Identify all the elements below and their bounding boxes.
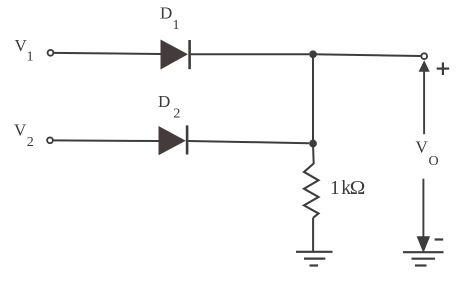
label 1 kOhm [330, 178, 365, 199]
svg-text:V: V [14, 121, 27, 140]
plus sign [437, 62, 450, 75]
svg-text:2: 2 [173, 106, 180, 121]
resistor R 1k zigzag [304, 164, 319, 218]
label Vo [416, 137, 439, 169]
svg-text:D: D [158, 92, 170, 111]
diode D2 [159, 125, 188, 155]
wire node B to resistor top [312, 144, 315, 165]
svg-text:1: 1 [330, 178, 340, 199]
wire D1 cathode to node A [191, 53, 309, 55]
svg-text:D: D [160, 3, 172, 22]
diode D1 [161, 40, 190, 70]
svg-text:Ω: Ω [350, 178, 366, 199]
wire node A to output terminal [313, 54, 421, 56]
svg-text:2: 2 [27, 135, 34, 150]
label V1 [15, 36, 34, 65]
wire D2 cathode to node B [188, 141, 309, 143]
svg-text:O: O [429, 154, 439, 169]
wire V2 to D2 anode [53, 139, 158, 142]
node V2 input terminal [47, 137, 53, 143]
wire node A to node B vertical [312, 54, 314, 143]
minus sign [435, 238, 444, 240]
node V1 input terminal [48, 50, 54, 56]
svg-text:1: 1 [27, 50, 34, 65]
svg-text:V: V [416, 137, 429, 156]
wire resistor bottom to ground [312, 218, 314, 252]
Vo arrow down (- end) [417, 179, 431, 253]
wire V1 to D1 anode [54, 53, 161, 54]
node B junction dot [309, 140, 317, 148]
node Vo output terminal [421, 53, 427, 59]
ground (right, below Vo arrow) [403, 252, 444, 265]
label D2 [158, 92, 180, 121]
Vo arrow up (+ end) [419, 60, 430, 134]
label V2 [14, 121, 34, 150]
svg-text:1: 1 [173, 18, 180, 33]
ground (left, below resistor) [296, 252, 333, 266]
label D1 [160, 3, 180, 33]
node A junction dot [309, 50, 317, 58]
